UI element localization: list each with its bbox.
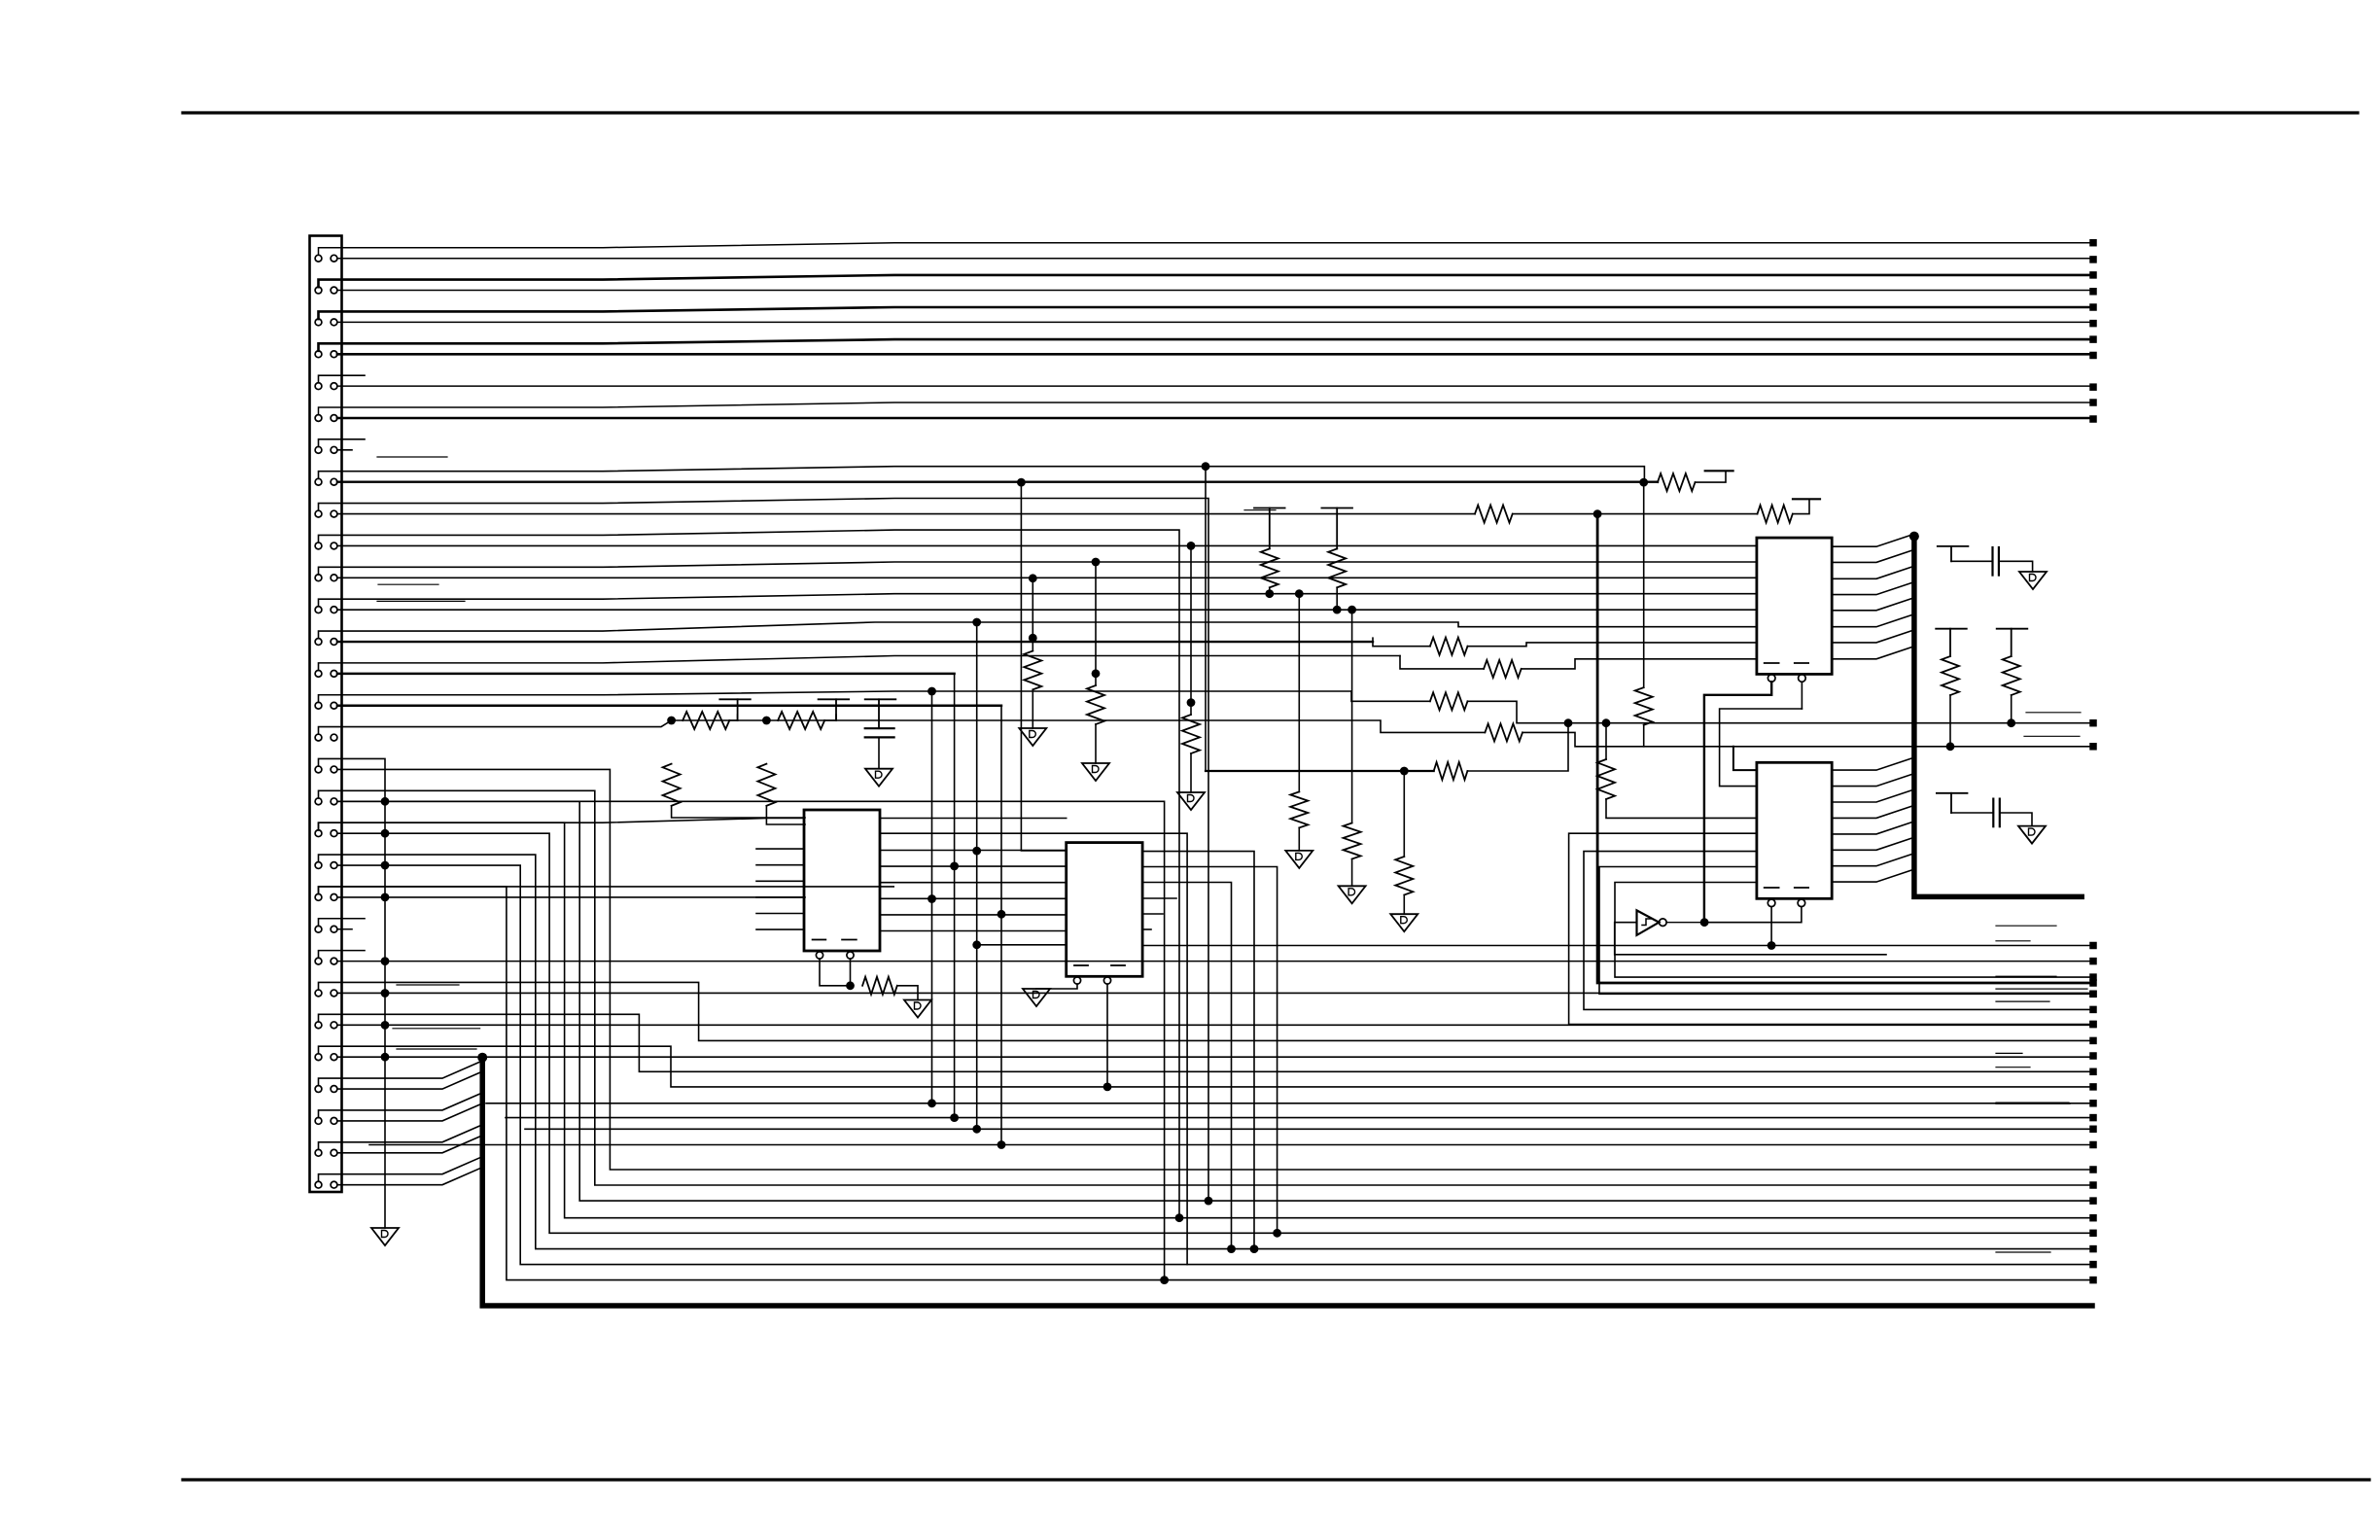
- power tap T8: [1936, 628, 1967, 630]
- wire U2 enable left gnd: [1036, 984, 1077, 989]
- net label row7: [377, 456, 447, 458]
- junction row8 upper: [1202, 462, 1210, 471]
- junction ground bus row20: [381, 861, 390, 870]
- wire chain4 gnd lead: [1403, 895, 1405, 915]
- wire net741 to RJ4: [766, 720, 1485, 732]
- wire J1 row4 upper to terminal: [319, 339, 2091, 351]
- ground D U1: [904, 1000, 931, 1018]
- power tap T7: [1937, 792, 1968, 794]
- resistor R6: [757, 764, 775, 806]
- wire chain7 drop: [1605, 723, 1607, 759]
- wire chain2 gnd lead: [1095, 724, 1097, 763]
- connector J1 pin pair row 25 circles: [315, 1022, 322, 1029]
- wire IC2 pin1 feed: [1021, 482, 1066, 851]
- wire R25 down: [1269, 587, 1271, 593]
- resistor R22: [1758, 506, 1793, 523]
- wire U1 left pin stub 4: [756, 896, 804, 898]
- power tap T2: [819, 698, 850, 700]
- wire U4 out pin6 to bus: [1832, 837, 1914, 850]
- junction net768: [1946, 742, 1955, 751]
- wire J1 row2 lower to terminal: [337, 290, 2090, 292]
- wire J1 row8 upper: [319, 467, 1645, 482]
- resistor R28: [1290, 791, 1308, 827]
- wire row8 upper drop: [1205, 467, 1207, 771]
- terminal square low 19C: [2089, 1230, 2097, 1238]
- wire J1 row24 lower to terminal: [337, 992, 2089, 994]
- wire row13 upper long descent: [976, 622, 978, 1129]
- wire J1 row10 lower IC3 pin1: [337, 544, 1757, 546]
- wire R22 to tap: [1793, 499, 1809, 513]
- junction U1 enable: [846, 981, 855, 990]
- page top rule: [183, 111, 2358, 114]
- resistor R16: [1484, 660, 1522, 678]
- terminal square low 20C: [2089, 1261, 2097, 1269]
- wire R8 to tap: [824, 715, 836, 720]
- wire U4 out pin3 to bus: [1832, 789, 1914, 802]
- junction U2 enable: [1103, 1083, 1112, 1092]
- junction U2 out 907: [1227, 1244, 1236, 1253]
- wire U1 to U2 pin 7: [880, 914, 1067, 916]
- junction inverter out: [1700, 918, 1709, 927]
- junction descent a2: [972, 940, 981, 949]
- terminal square c-loop 2: [2089, 1006, 2097, 1014]
- junction ground bus row18: [381, 797, 390, 806]
- resistor R21: [1658, 473, 1696, 491]
- wire chain2 drop: [1095, 562, 1097, 685]
- wire J1 row19 upper IC1 pin1: [319, 819, 805, 830]
- wire U1 to U2 pin 8: [880, 930, 1067, 932]
- wire J1 row14 upper: [319, 656, 1401, 671]
- wire U2 out 972: [1142, 945, 2089, 947]
- wire R7 to tap: [729, 715, 737, 720]
- wire U1 left pin stub 1: [756, 848, 804, 850]
- connector J1 pin pair row 12 circles: [315, 607, 322, 613]
- wire J1 row25 upper jog to terminal: [319, 1014, 2090, 1071]
- power bus left thick: [482, 1058, 2092, 1306]
- net label: [1996, 1102, 2070, 1104]
- terminal square row23: [2089, 958, 2097, 965]
- wire J1 row6 lower to terminal: [337, 417, 2090, 420]
- wire J1 row11 lower IC3 pin3: [337, 577, 1757, 578]
- wire chain3 drop: [1190, 545, 1192, 715]
- terminal square lower mid 3: [2089, 1126, 2097, 1134]
- wire J1 row5 stub: [319, 375, 366, 383]
- junction chain5: [1295, 589, 1304, 598]
- connector J1 pin pair row 26 circles: [315, 1054, 322, 1061]
- net label row11a: [378, 583, 438, 585]
- wire U1 out pin1 stub: [880, 818, 1067, 820]
- wire U2 out 956 stub: [1142, 928, 1151, 930]
- wire c-loop 1: [1569, 833, 2089, 1024]
- connector J1 pin pair row 3 circles: [315, 319, 322, 326]
- terminal square row6 lower: [2089, 415, 2097, 423]
- wire U1 to U2 pin 4: [880, 865, 1067, 867]
- inverter U5: [1637, 910, 1660, 935]
- IC U2 pin dashes: [1074, 964, 1088, 966]
- connector J1 pin pair row 15 circles: [315, 702, 322, 709]
- junction chain3 lower: [1187, 698, 1196, 707]
- wire U2 out 891 drop: [1142, 867, 1277, 1234]
- wire J1 row17 upper ground bus: [319, 758, 386, 1228]
- wire J1 row4 lower to terminal: [337, 353, 2090, 356]
- junction net744 b: [1564, 718, 1573, 727]
- wire lower mid 2: [506, 1117, 2089, 1119]
- power tap T1: [719, 698, 751, 700]
- terminal square 972: [2089, 942, 2097, 950]
- power tap T3: [865, 698, 896, 700]
- wire J1 row22 stub lower: [337, 928, 352, 930]
- connector J1 pin pair row 18 circles: [315, 798, 322, 805]
- wire J1 row26 upper jog to terminal: [319, 1046, 2090, 1087]
- ground D chain3: [1177, 792, 1205, 810]
- wire J1 row13 upper IC3 pin6: [319, 622, 1757, 639]
- ground D C1: [865, 769, 892, 787]
- wire J1 row29 upper to bus: [319, 1125, 483, 1150]
- wire J1 row10 upper: [319, 530, 1180, 1218]
- connector J1 pin pair row 1 circles: [315, 255, 322, 262]
- wire U1 left pin stub 6: [756, 928, 804, 930]
- connector J1 pin pair row 13 circles: [315, 639, 322, 646]
- IC U4 pin dashes: [1765, 887, 1779, 889]
- terminal square lower 2: [2089, 288, 2097, 296]
- wire J1 row29 lower to bus: [337, 1136, 482, 1153]
- wire U4 out pin7 to bus: [1832, 854, 1914, 866]
- terminal square row5: [2089, 383, 2097, 391]
- wire net768 to terminal: [1733, 746, 2089, 748]
- IC U3 pin dashes: [1765, 662, 1779, 664]
- wire row15 jog: [1351, 691, 1430, 701]
- connector J1 pin pair row 27 circles: [315, 1086, 322, 1093]
- wire J1 row1 lower to terminal: [337, 258, 2090, 260]
- wire R17 to net744: [1468, 701, 2090, 722]
- capacitor C2: [1991, 547, 1993, 576]
- terminal square row25: [2089, 1021, 2097, 1029]
- wire row9 lower cont: [1513, 513, 1758, 515]
- wire c-loop 2: [1584, 852, 2089, 1010]
- junction ground bus row26: [381, 1053, 390, 1062]
- wire J1 row13 lower: [337, 641, 1373, 643]
- wire U2 out 907 drop: [1142, 883, 1231, 1249]
- junction chain1 lower: [1029, 634, 1037, 643]
- wire chain5 gnd lead: [1298, 827, 1300, 851]
- connector J1 pin pair row 11 circles: [315, 575, 322, 581]
- connector J1 pin pair row 17 circles: [315, 766, 322, 773]
- junction chain7: [1602, 718, 1611, 727]
- connector J1 pin pair row 20 circles: [315, 862, 322, 869]
- terminal square lower 4: [2089, 352, 2097, 360]
- connector J1 pin pair row 22 circles: [315, 926, 322, 932]
- terminal square upper 2: [2089, 271, 2097, 279]
- wire inverter out: [1666, 922, 1704, 924]
- wire J1 row25 lower to terminal: [337, 1024, 2089, 1026]
- resistor R27: [1395, 857, 1413, 895]
- wire J1 row9 upper: [319, 499, 1209, 1202]
- junction row8 lower b: [1639, 478, 1648, 487]
- resistor R13: [1434, 762, 1468, 780]
- wire U1 to U2 pin 3: [880, 850, 1067, 852]
- IC U2 enable circles: [1073, 977, 1080, 984]
- wire J1 row20 lower to lower terminal: [337, 865, 2089, 1265]
- wire J1 row1 upper to terminal: [319, 243, 2091, 256]
- resistor R17: [1430, 692, 1468, 710]
- power tap T4: [1705, 470, 1733, 472]
- wire J1 row18 upper to lower terminal: [319, 790, 2090, 1185]
- junction net row8: [1400, 767, 1409, 776]
- IC U3 body: [1757, 538, 1832, 674]
- junction descent b1: [950, 862, 959, 871]
- connector J1 pin pair row 9 circles: [315, 510, 322, 517]
- wire U4 out pin8 to bus: [1832, 869, 1914, 882]
- net label row24: [397, 984, 459, 986]
- wire J1 row2 upper to terminal: [319, 275, 2091, 287]
- wire J1 row24 upper jog to terminal: [319, 982, 2090, 1040]
- wire U1 enable right: [850, 959, 852, 986]
- resistor R29: [1344, 823, 1361, 859]
- wire J1 row15 upper: [319, 691, 1352, 702]
- wire net row8 up to net744: [1467, 723, 1568, 771]
- IC U4 enable circles: [1767, 899, 1775, 907]
- terminal square upper 3: [2089, 303, 2097, 311]
- wire J1 row6 upper to terminal: [319, 402, 2091, 415]
- wire J1 row16 upper pullups: [319, 720, 767, 734]
- connector J1 pin pair row 16 circles: [315, 734, 322, 741]
- wire row15 lower long descent: [1000, 706, 1002, 1145]
- ground D chain4: [1390, 914, 1417, 931]
- wire chain6 drop: [1351, 610, 1353, 822]
- net label: [1996, 1052, 2022, 1054]
- capacitor C1: [865, 727, 894, 729]
- terminal square row6 upper: [2089, 399, 2097, 406]
- wire U3 out pin3 to bus: [1832, 566, 1914, 578]
- terminal square 1102: [2089, 1068, 2097, 1076]
- wire U4 out pin4 to bus: [1832, 805, 1914, 818]
- wire R5 to IC1: [672, 806, 805, 818]
- wire U3 out pin7 to bus: [1832, 630, 1914, 643]
- connector J1 body: [310, 236, 342, 1193]
- wire R9 to ground: [897, 986, 918, 1000]
- power tap T9: [1997, 628, 2028, 630]
- wire row13 lower jog: [1373, 638, 1430, 647]
- wire J1 row22 stub upper: [319, 919, 366, 927]
- terminal square low 21B: [2089, 1277, 2097, 1284]
- terminal square low 19B: [2089, 1214, 2097, 1222]
- wire U2 out 924 stub: [1142, 897, 1176, 899]
- wire J1 row3 lower to terminal: [337, 321, 2090, 323]
- junction U2 out 875: [1250, 1244, 1259, 1253]
- resistor R15: [1430, 638, 1468, 655]
- wire net768 to IC4 pin1: [1733, 747, 1757, 770]
- ground D chain6: [1339, 886, 1366, 903]
- wire U3 out pin6 to bus: [1832, 614, 1914, 627]
- wire J1 row28 upper to bus: [319, 1093, 483, 1118]
- junction descent d2: [997, 1140, 1006, 1149]
- net label: [1996, 1067, 2030, 1068]
- junction R26: [1333, 606, 1342, 614]
- capacitor C3: [1992, 799, 1994, 827]
- wire J1 row21 lower IC1: [337, 896, 805, 898]
- wire chain5 drop: [1298, 594, 1300, 792]
- wire chain6 gnd lead: [1351, 859, 1353, 887]
- wire J1 row18 lower drop: [337, 801, 1165, 1279]
- wire J1 row21 upper to lower terminal: [319, 887, 2090, 1280]
- wire U2 out 875 drop: [1142, 852, 1254, 1249]
- wire R18 to net768: [1522, 732, 1733, 746]
- power tap T6: [1938, 545, 1969, 547]
- wire J1 row7 stub upper: [319, 439, 366, 447]
- wire U2 out 940 stub: [1142, 913, 1163, 915]
- wire row15 upper long descent: [931, 691, 933, 1103]
- junction row8 lower a: [1017, 478, 1026, 487]
- wire J1 row19 lower to lower terminal: [337, 833, 2089, 1233]
- resistor R5: [663, 764, 681, 806]
- wire chain4 drop: [1403, 771, 1405, 857]
- wire U3 out pin8 to bus: [1832, 647, 1914, 659]
- terminal square low 20B: [2089, 1245, 2097, 1253]
- junction right bus top: [1909, 532, 1919, 542]
- wire tap to C3: [1951, 812, 1993, 814]
- wire row14 lower long descent: [954, 674, 956, 1118]
- wire c-loop 4: [1615, 883, 2089, 978]
- terminal square upper 4: [2089, 335, 2097, 343]
- resistor R30: [1597, 759, 1615, 799]
- junction drop 1197b: [1160, 1276, 1169, 1284]
- wire R24 down: [2011, 695, 2012, 723]
- wire U3 out pin1 to bus: [1832, 534, 1914, 546]
- IC U3 enable circles: [1767, 675, 1775, 682]
- net label: [1996, 975, 2056, 977]
- junction bus top: [477, 1053, 487, 1063]
- terminal square lower mid 1: [2089, 1100, 2097, 1107]
- junction ground bus row25: [381, 1021, 390, 1030]
- junction U2 out 972: [1767, 941, 1776, 950]
- junction descent c2: [927, 1099, 936, 1107]
- page bottom rule: [183, 1478, 2369, 1481]
- terminal square net744: [2089, 719, 2097, 727]
- wire R21 to tap: [1696, 471, 1727, 482]
- wire U1 left pin stub 3: [756, 880, 804, 882]
- wire C3 to gnd: [2000, 813, 2032, 826]
- wire U3 out pin2 to bus: [1832, 549, 1914, 562]
- connector J1 pin pair row 10 circles: [315, 542, 322, 549]
- wire U1 to U2 pin 5: [880, 882, 1067, 884]
- resistor R12: [1182, 715, 1200, 753]
- wire J1 row15 lower: [337, 705, 1001, 707]
- junction row13 upper: [972, 618, 981, 627]
- wire J1 row26 lower to terminal: [337, 1056, 2089, 1058]
- IC U1 pin dashes: [813, 939, 826, 941]
- resistor R26: [1328, 548, 1346, 587]
- ground D C2: [2019, 572, 2047, 589]
- terminal square low 18C: [2089, 1197, 2097, 1205]
- wire c-loop 3: [1599, 867, 2089, 995]
- net label row26: [397, 1048, 476, 1050]
- terminal square lower 3: [2089, 320, 2097, 328]
- connector J1 pin pair row 30 circles: [315, 1181, 322, 1188]
- wire tap to C2: [1951, 560, 1993, 562]
- junction descent c1: [927, 894, 936, 903]
- terminal square upper 1: [2089, 239, 2097, 247]
- junction ground bus row21: [381, 893, 390, 902]
- net label: [1996, 925, 2056, 927]
- terminal square c-loop 4: [2089, 973, 2097, 981]
- wire J1 row9 lower: [337, 513, 1475, 515]
- wire J1 row19 upper to lower terminal: [319, 822, 2090, 1218]
- terminal square low 17C: [2089, 1166, 2097, 1173]
- terminal square lower mid 4: [2089, 1141, 2097, 1149]
- terminal square drop: [2089, 979, 2097, 987]
- connector J1 pin pair row 14 circles: [315, 670, 322, 677]
- junction ground bus row23: [381, 957, 390, 965]
- wire C2 to gnd: [1999, 561, 2033, 572]
- wire J1 row3 upper to terminal: [319, 307, 2091, 319]
- wire U4 enable left drop: [1770, 907, 1772, 946]
- net label: [2024, 735, 2080, 737]
- terminal square 1070: [2089, 1037, 2097, 1045]
- net label: [1996, 988, 2087, 990]
- wire U3 out pin4 to bus: [1832, 582, 1914, 595]
- net label: [1996, 1251, 2050, 1253]
- wire J1 row28 lower to bus: [337, 1103, 482, 1121]
- ground D C3: [2018, 826, 2046, 844]
- power tap T11: [1321, 507, 1352, 509]
- wire J1 row30 lower to bus: [337, 1168, 482, 1185]
- connector J1 pin pair row 6 circles: [315, 415, 322, 422]
- connector J1 pin pair row 21 circles: [315, 894, 322, 901]
- wire U1 left pin stub 2: [756, 864, 804, 866]
- junction U2 out 891: [1273, 1229, 1281, 1238]
- wire U3 enable left wrap: [1704, 682, 1771, 922]
- connector J1 pin pair row 4 circles: [315, 351, 322, 358]
- wire J1 row11 upper IC3 pin2: [319, 562, 1757, 575]
- wire U3 out pin5 to bus: [1832, 598, 1914, 611]
- junction descent d1: [997, 910, 1006, 919]
- junction row9 upper lower-bus: [1205, 1197, 1213, 1206]
- terminal square lower mid 2: [2089, 1114, 2097, 1122]
- connector J1 pin pair row 28 circles: [315, 1118, 322, 1125]
- net label: [1996, 1000, 2049, 1002]
- connector J1 pin pair row 23 circles: [315, 958, 322, 964]
- junction ground bus row19: [381, 829, 390, 838]
- wire net row8 horizontal: [1206, 770, 1434, 772]
- wire U4 out pin1 to bus: [1832, 757, 1914, 770]
- power tap T10: [1254, 507, 1285, 509]
- wire R16 to IC3 pin8: [1522, 659, 1757, 669]
- resistor R7: [682, 712, 729, 729]
- wire J1 row14 lower: [337, 673, 955, 675]
- wire U3 enable right drop: [1801, 682, 1802, 709]
- connector J1 pin pair row 29 circles: [315, 1149, 322, 1156]
- wire row9 drop thick: [1597, 514, 2089, 983]
- junction descent a3: [972, 1125, 981, 1134]
- wire J1 row5 to terminal: [337, 385, 2090, 387]
- net label row25: [393, 1028, 480, 1030]
- junction ground bus row24: [381, 989, 390, 997]
- net label: [2026, 712, 2081, 714]
- wire U4 out pin5 to bus: [1832, 822, 1914, 834]
- net label row12a: [377, 600, 465, 602]
- resistor R14: [1475, 506, 1513, 523]
- junction pullup1: [667, 717, 676, 725]
- resistor R11: [1087, 685, 1104, 724]
- wire J1 row20 upper to lower terminal: [319, 855, 2090, 1249]
- wire chain1 gnd lead: [1032, 689, 1033, 728]
- wire J1 row21 upper IC1: [319, 887, 895, 894]
- junction chain3: [1187, 542, 1196, 550]
- resistor R10: [1024, 651, 1041, 690]
- resistor R9: [862, 977, 897, 995]
- IC U4 body: [1757, 762, 1832, 898]
- connector J1 pin pair row 19 circles: [315, 830, 322, 837]
